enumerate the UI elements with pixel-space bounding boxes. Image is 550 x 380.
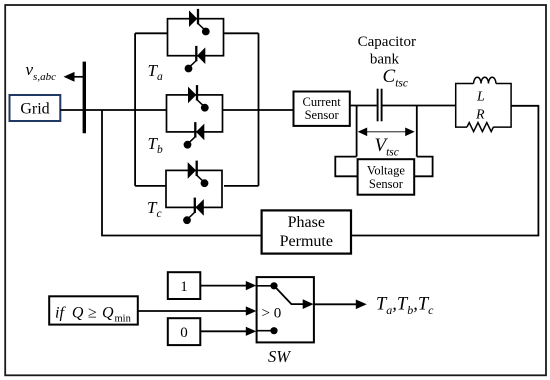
svg-text:Ta: Ta (148, 61, 163, 83)
svg-text:> 0: > 0 (262, 306, 282, 322)
svg-text:R: R (475, 108, 485, 123)
svg-text:Current: Current (303, 95, 342, 109)
constant 0 box (168, 318, 201, 345)
bus bar (83, 62, 86, 134)
thyristor Ta1 (top, right-pointing) (189, 9, 210, 36)
svg-text:Tc: Tc (147, 198, 162, 220)
svg-text:Sensor: Sensor (305, 108, 340, 122)
wire drop to phase permute (102, 110, 262, 236)
thyristor pair Tb box (167, 95, 223, 132)
svg-text:Grid: Grid (20, 101, 49, 118)
node vs,abc label (26, 60, 57, 83)
wire if to switch (138, 310, 248, 312)
Phase Permute box (262, 210, 351, 253)
svg-text:if Q: if Q (55, 305, 84, 322)
capacitor Ctsc plates (378, 89, 382, 122)
wire left thyristor bus (134, 33, 136, 186)
svg-text:1: 1 (180, 279, 188, 295)
wire capacitor to LR block (383, 105, 456, 107)
svg-text:≥: ≥ (88, 305, 97, 322)
arrowhead 0 input (246, 327, 256, 336)
svg-text:Ctsc: Ctsc (383, 66, 408, 90)
switch SW box (257, 277, 314, 342)
thyristor Tc2 (bottom, left-pointing) (183, 198, 204, 225)
Vtsc measurement arrow (358, 128, 415, 137)
wire Tc left stub (135, 185, 166, 187)
Voltage Sensor box (358, 159, 415, 195)
svg-text:Vtsc: Vtsc (375, 135, 399, 159)
arrowhead if input (246, 306, 256, 315)
wire Ta right stub (224, 32, 259, 34)
constant 1 box (168, 272, 201, 299)
wire switch output (314, 303, 357, 305)
thyristor Tb1 (top, right-pointing) (188, 85, 209, 112)
Grid box (10, 95, 61, 121)
Current Sensor box (294, 92, 350, 126)
wire LR to right drop (351, 106, 538, 236)
wire voltage tap right stub (416, 106, 418, 157)
svg-text:Q: Q (102, 305, 114, 322)
wire Tc right stub (224, 185, 259, 187)
L-R damping block outline (456, 84, 511, 128)
wire current sensor to capacitor (350, 105, 377, 107)
switch bottom contact dot (270, 327, 277, 334)
svg-text:0: 0 (180, 325, 188, 341)
thyristor pair Tc box (166, 170, 222, 207)
wire 1 to switch (200, 285, 248, 287)
wire Tb right to current sensor (223, 109, 294, 111)
wire voltage tap left stub (356, 106, 358, 157)
thyristor pair Ta box (168, 19, 224, 56)
svg-text:min: min (115, 314, 132, 325)
svg-text:L: L (476, 90, 485, 105)
svg-text:Permute: Permute (280, 233, 333, 250)
thyristor Tc1 (top, right-pointing) (188, 161, 209, 188)
wire switch bottom stub (257, 330, 274, 332)
wire grid to Tb left (60, 109, 166, 111)
wire left stair to voltage sensor (335, 157, 357, 177)
condition box if Q >= Qmin (49, 296, 138, 324)
resistor R zigzag (467, 123, 493, 132)
arrowhead at bus (64, 72, 75, 82)
wire bus arrow line (73, 76, 85, 78)
svg-text:Sensor: Sensor (369, 177, 404, 191)
switch arm arrowhead (303, 299, 314, 309)
switch top contact dot (270, 282, 277, 289)
svg-text:Voltage: Voltage (367, 164, 405, 178)
thyristor Ta2 (bottom, left-pointing) (185, 46, 206, 73)
inductor L coils (474, 77, 496, 83)
svg-text:vs,abc: vs,abc (26, 60, 57, 83)
svg-text:Tb: Tb (148, 134, 163, 156)
svg-text:Phase: Phase (288, 214, 325, 231)
switch arm (274, 286, 303, 304)
label Capacitor bank (358, 34, 416, 68)
svg-text:Capacitor: Capacitor (358, 34, 416, 50)
svg-text:Ta,Tb,Tc: Ta,Tb,Tc (376, 295, 434, 318)
thyristor Tb2 (bottom, left-pointing) (184, 122, 205, 149)
svg-text:SW: SW (268, 347, 291, 366)
arrowhead output (356, 300, 367, 310)
arrowhead 1 input (246, 281, 256, 290)
wire right thyristor bus (258, 33, 260, 186)
wire 0 to switch (200, 330, 248, 332)
wire right stair to voltage sensor (414, 157, 432, 177)
wire Ta left stub (135, 32, 167, 34)
wire switch top stub (257, 285, 274, 287)
